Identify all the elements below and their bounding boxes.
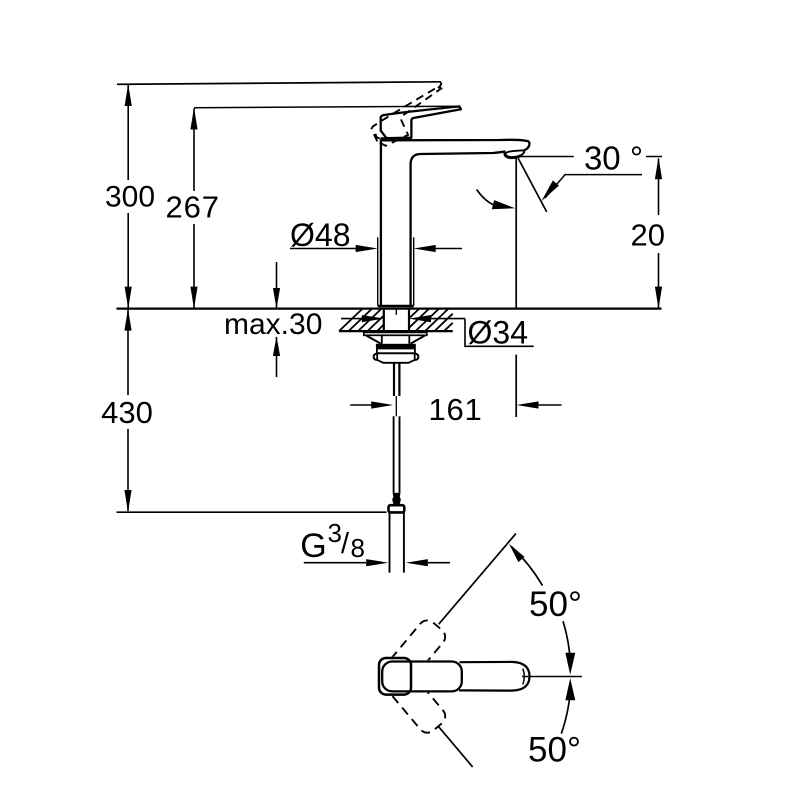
wire stream angle line	[518, 158, 547, 212]
dimension 430	[101, 309, 386, 513]
dimension diam34	[341, 315, 534, 351]
arc arrowheads at centerline	[565, 653, 575, 675]
svg-text:Ø48: Ø48	[290, 217, 350, 253]
faucet body and spout outline	[381, 140, 530, 306]
dimension max.30	[224, 262, 322, 377]
counter top line	[117, 308, 662, 310]
gasket dark band	[376, 344, 416, 349]
bottom diagram: dashed rotated lever down	[376, 657, 449, 736]
svg-text:Ø34: Ø34	[468, 315, 528, 351]
counter hatch right	[409, 309, 453, 331]
wire vertical extension from aerator	[515, 158, 517, 417]
swivel curved arrow	[477, 190, 515, 210]
wire dashed handle tip hook	[438, 82, 441, 88]
dimension 300	[105, 84, 155, 309]
bottom diagram: upper diagonal 50deg line	[439, 534, 516, 625]
svg-text:50°: 50°	[529, 585, 582, 624]
counter hatch left	[339, 309, 384, 331]
bottom diagram: solid lever top view	[378, 657, 530, 696]
svg-text:430: 430	[101, 395, 153, 430]
svg-text:max.30: max.30	[224, 308, 322, 341]
svg-text:G: G	[300, 527, 326, 565]
svg-text:161: 161	[428, 392, 482, 427]
svg-text:50°: 50°	[528, 730, 581, 769]
dimension 205 right	[631, 157, 665, 308]
faucet: cap band under handle	[381, 137, 412, 139]
dimension 267	[165, 108, 219, 309]
svg-text:20: 20	[631, 218, 665, 253]
aerator	[505, 150, 524, 157]
faucet: solid handle lever	[381, 106, 461, 138]
dimension diam48	[290, 217, 462, 306]
label 30deg	[520, 140, 663, 202]
mounting cone	[366, 335, 425, 344]
supply hose	[394, 416, 400, 493]
svg-text:8: 8	[351, 533, 365, 563]
wire reference line 267	[194, 106, 458, 108]
wire top reference line 300	[117, 82, 441, 85]
bottom diagram: dashed rotated lever up	[376, 617, 449, 696]
label G 3/8	[300, 518, 450, 566]
svg-text:30 °: 30 °	[584, 140, 643, 177]
svg-text:3: 3	[328, 518, 342, 548]
counter bottom line	[339, 330, 453, 332]
faucet base bottom	[378, 305, 414, 308]
hose end connector	[389, 493, 405, 573]
svg-text:300: 300	[105, 181, 155, 214]
dimension 161	[350, 392, 561, 427]
svg-text:267: 267	[165, 190, 219, 225]
bottom diagram: lower diagonal 50deg line	[438, 726, 473, 767]
mounting nut	[374, 349, 419, 363]
shank through counter	[384, 309, 409, 332]
arc arrowhead at upper diagonal	[509, 544, 525, 562]
bottom diagram: centerline right	[522, 676, 582, 678]
bottom diagram: arcs r175.5 about pivot	[511, 547, 571, 734]
threaded rod	[394, 363, 399, 417]
svg-text:/: /	[341, 528, 350, 560]
flange under counter	[364, 332, 427, 335]
